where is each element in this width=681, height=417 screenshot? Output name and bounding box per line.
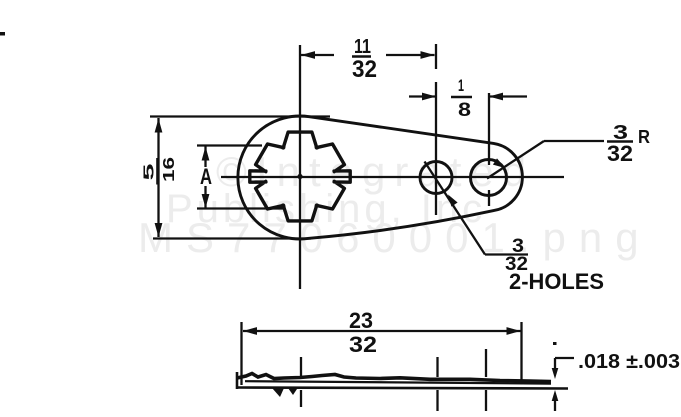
svg-text:11: 11: [354, 36, 371, 58]
svg-text:A: A: [200, 164, 212, 189]
svg-text:.018 ±.003: .018 ±.003: [578, 351, 680, 373]
svg-text:23: 23: [349, 308, 373, 333]
svg-text:32: 32: [607, 141, 633, 166]
svg-text:1: 1: [458, 76, 464, 95]
svg-text:32: 32: [349, 332, 377, 357]
svg-text:2-HOLES: 2-HOLES: [509, 269, 604, 294]
svg-text:8: 8: [458, 100, 471, 121]
svg-text:5: 5: [141, 164, 158, 181]
svg-text:16: 16: [161, 157, 178, 182]
svg-text:32: 32: [352, 56, 377, 83]
svg-text:R: R: [638, 127, 650, 147]
